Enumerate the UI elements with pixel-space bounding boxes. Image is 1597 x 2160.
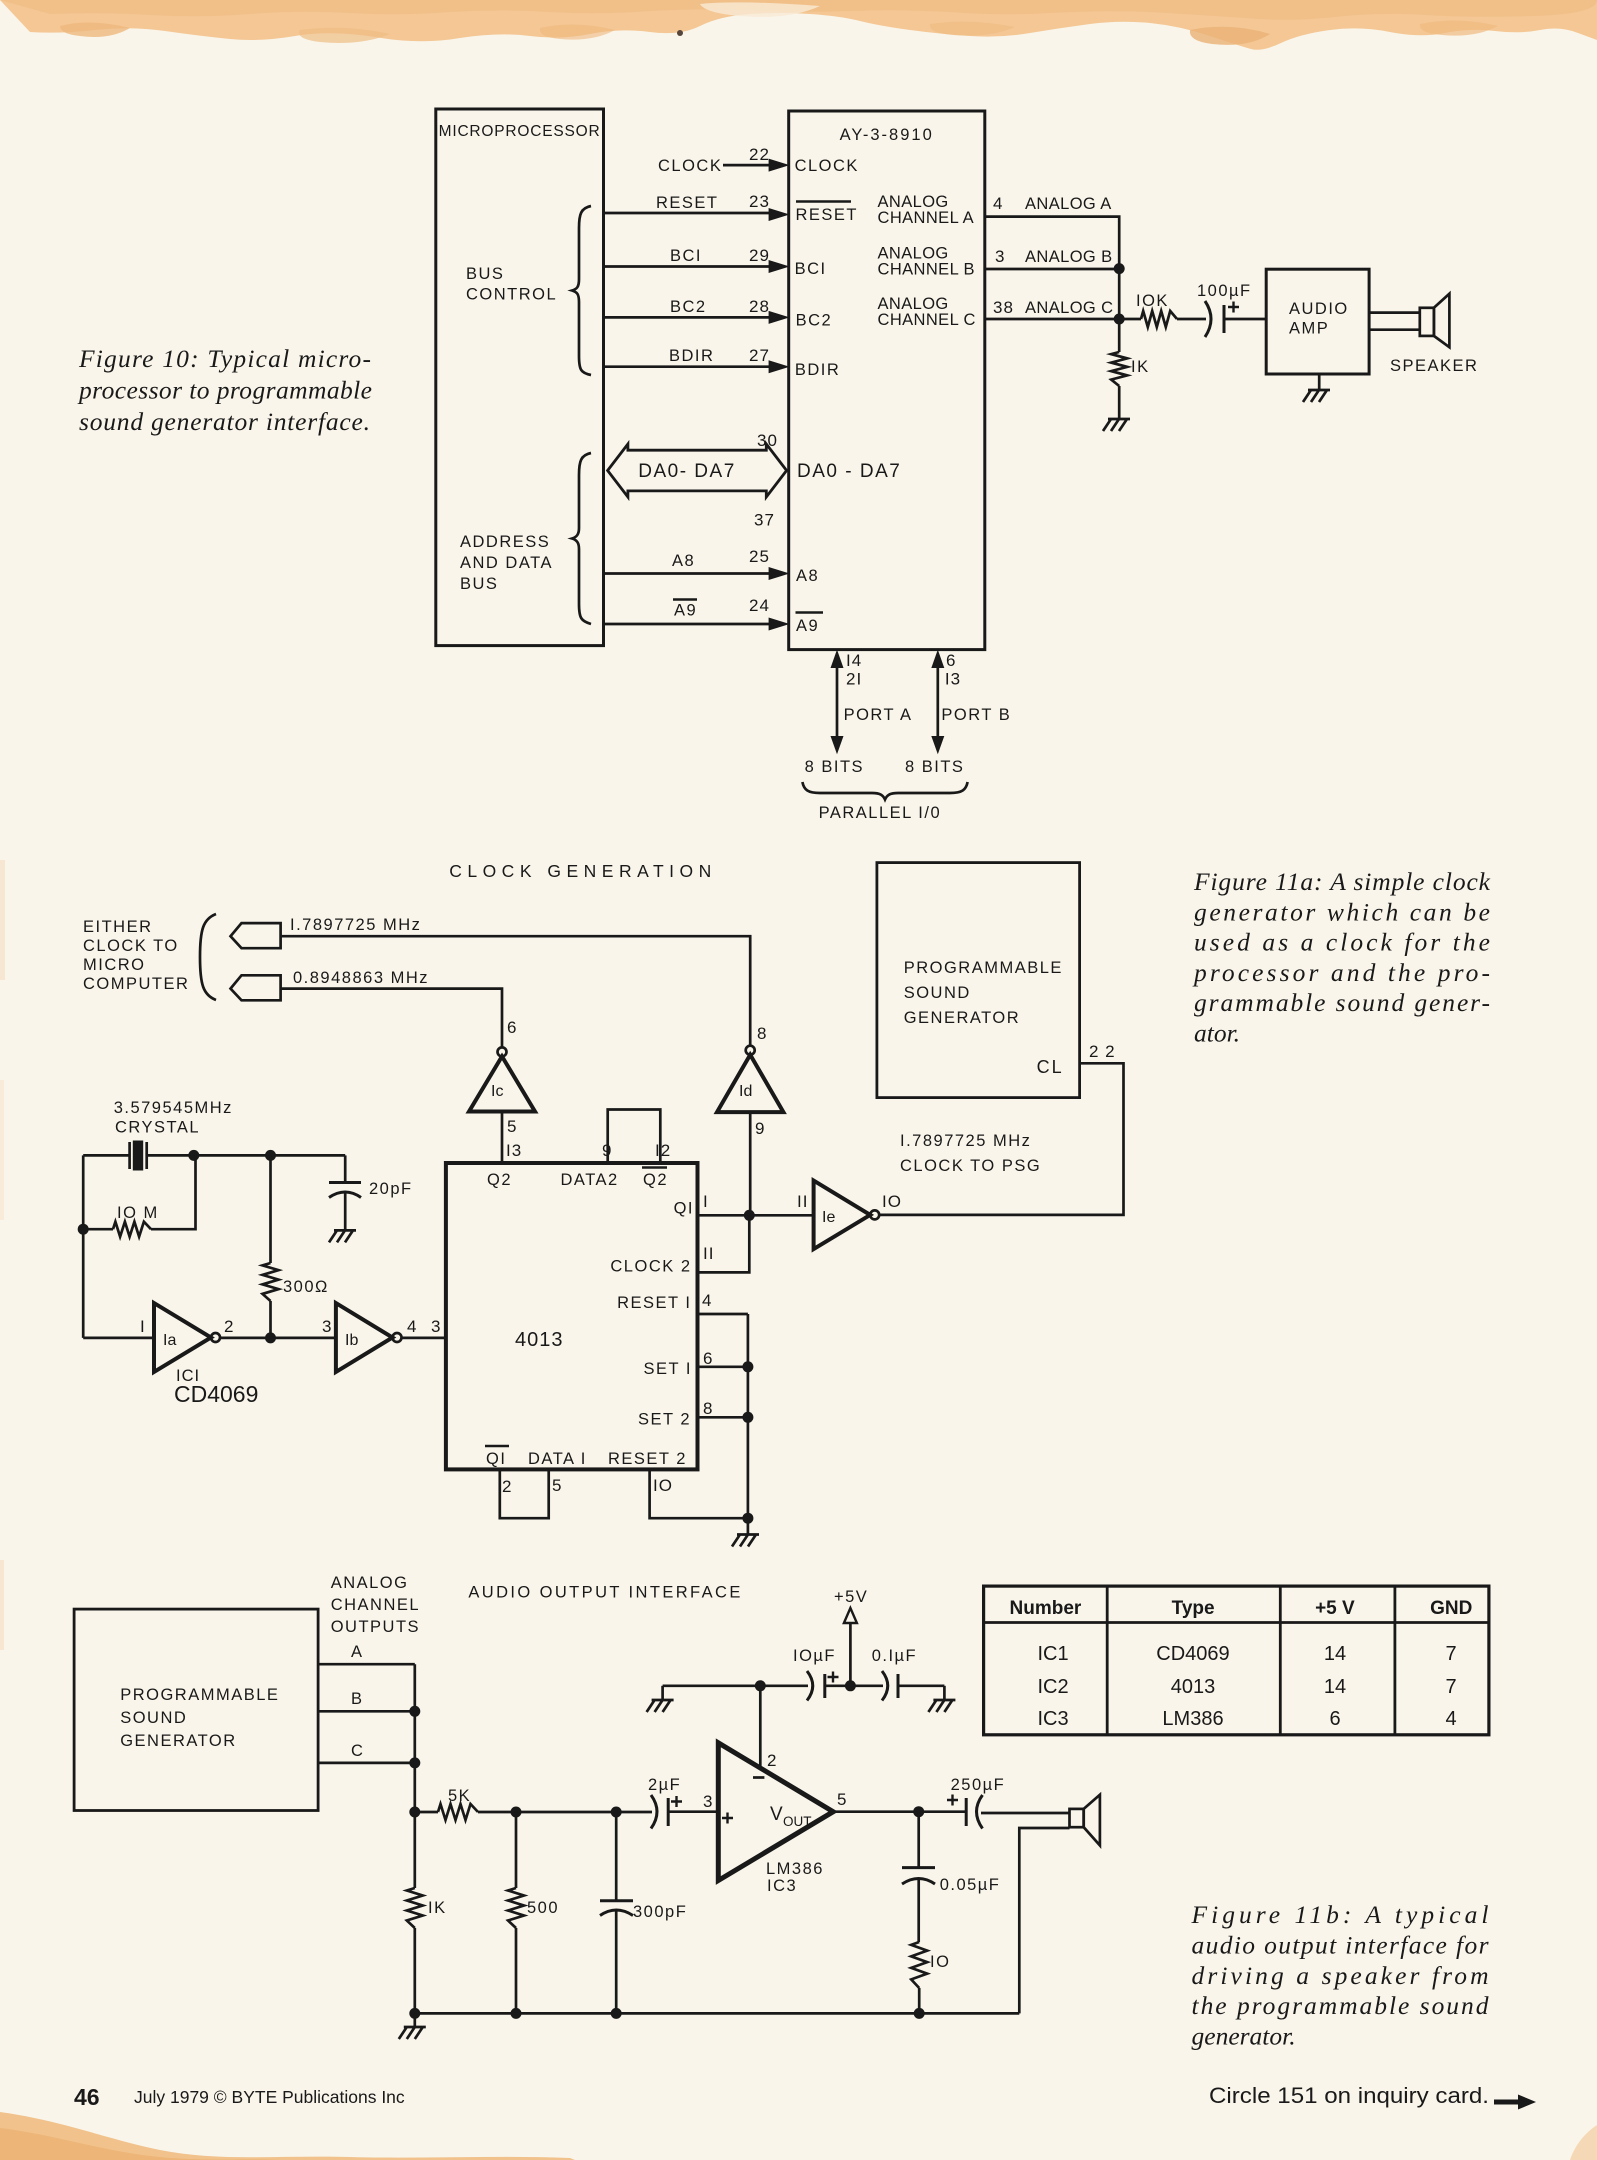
svg-text:OUT: OUT <box>783 1814 812 1829</box>
node Vout junction <box>913 1806 924 1817</box>
IC pin table <box>984 1586 1489 1735</box>
4013 pin SET1 6 wire <box>644 1349 748 1378</box>
wire ground rail 11b <box>415 2012 1020 2015</box>
svg-text:A9: A9 <box>796 617 819 635</box>
svg-text:27: 27 <box>749 346 770 365</box>
svg-text:BUS: BUS <box>460 575 498 593</box>
svg-text:DATA2: DATA2 <box>561 1171 619 1189</box>
op-amp LM386 IC3 <box>703 1743 847 1895</box>
capacitor 0.05uF <box>902 1812 1000 1942</box>
svg-text:AY-3-8910: AY-3-8910 <box>840 126 934 144</box>
wire Q1bar to DATA1 <box>500 1469 549 1518</box>
wire channel B <box>318 1690 415 1711</box>
svg-text:CLOCK TO PSG: CLOCK TO PSG <box>900 1157 1041 1175</box>
microprocessor box <box>436 109 604 646</box>
svg-text:IOµF: IOµF <box>793 1647 836 1665</box>
node SET1 junction <box>742 1361 753 1372</box>
svg-text:0.IµF: 0.IµF <box>872 1647 917 1665</box>
AY pin name RESET(bar) <box>796 202 859 225</box>
svg-text:Ie: Ie <box>822 1209 835 1226</box>
+5V supply arrow <box>834 1588 868 1686</box>
svg-text:RESET 2: RESET 2 <box>608 1450 687 1468</box>
wire channel bus down to mix node <box>413 1664 416 1812</box>
capacitor 2uF <box>648 1776 718 1829</box>
node pin2 tap <box>755 1680 766 1691</box>
4013 pin DATA2 9 <box>561 1141 619 1189</box>
capacitor 20pF <box>329 1155 413 1230</box>
svg-text:4013: 4013 <box>1171 1676 1216 1698</box>
svg-text:4: 4 <box>993 194 1003 213</box>
svg-text:PARALLEL I/0: PARALLEL I/0 <box>819 804 942 822</box>
svg-text:6: 6 <box>946 651 956 670</box>
IC2 4013 box <box>446 1163 698 1469</box>
label crystal value <box>114 1099 233 1137</box>
svg-text:IC3: IC3 <box>1037 1708 1068 1730</box>
svg-text:8 BITS: 8 BITS <box>905 758 964 776</box>
svg-text:AND DATA: AND DATA <box>460 554 553 572</box>
wire Vout to 250uF <box>833 1810 966 1813</box>
svg-text:CLOCK GENERATION: CLOCK GENERATION <box>449 861 717 881</box>
svg-text:PORT A: PORT A <box>844 706 913 724</box>
svg-text:II: II <box>797 1192 808 1211</box>
label analog channel B <box>878 245 975 279</box>
svg-text:5: 5 <box>507 1117 517 1136</box>
svg-text:Figure 11a: A simple clock: Figure 11a: A simple clock <box>1193 867 1491 896</box>
label either clock to micro computer <box>83 918 189 993</box>
wire CLOCK to pin 22 <box>658 145 790 175</box>
wire analog C pin 38 <box>985 298 1141 319</box>
svg-text:CHANNEL: CHANNEL <box>331 1596 420 1614</box>
svg-text:14: 14 <box>1324 1676 1346 1698</box>
svg-text:ADDRESS: ADDRESS <box>460 533 550 551</box>
svg-text:C: C <box>351 1742 364 1760</box>
svg-text:ANALOG B: ANALOG B <box>1025 248 1113 266</box>
svg-text:22: 22 <box>749 145 770 164</box>
4013 pin RESET1 4 wire <box>617 1291 748 1314</box>
figure 10 caption <box>77 344 372 436</box>
wire channel A <box>318 1643 415 1664</box>
svg-text:the programmable sound: the programmable sound <box>1192 1991 1489 2020</box>
svg-text:IC1: IC1 <box>1037 1643 1068 1665</box>
svg-text:46: 46 <box>74 2084 100 2110</box>
svg-text:30: 30 <box>757 431 778 450</box>
svg-text:IK: IK <box>1131 358 1150 376</box>
figure 11a caption <box>1192 867 1491 1048</box>
wire 1c to 4013 pin 13 <box>502 1112 522 1164</box>
node analog C junction <box>1114 314 1125 325</box>
svg-text:IK: IK <box>428 1899 447 1917</box>
svg-text:25: 25 <box>749 547 770 566</box>
svg-text:CHANNEL A: CHANNEL A <box>878 209 975 227</box>
audio amp box U-amp <box>1266 269 1369 374</box>
svg-text:I: I <box>703 1192 709 1211</box>
resistor 5K <box>415 1787 478 1820</box>
capacitor 250uF <box>947 1776 1070 1829</box>
svg-text:AUDIO OUTPUT INTERFACE: AUDIO OUTPUT INTERFACE <box>468 1584 742 1602</box>
wire analog A pin 4 <box>985 194 1119 268</box>
svg-text:A8: A8 <box>796 567 819 585</box>
svg-text:audio output interface for: audio output interface for <box>1192 1930 1489 1959</box>
svg-text:CLOCK: CLOCK <box>658 157 722 175</box>
svg-text:IO: IO <box>930 1953 950 1971</box>
svg-text:BDIR: BDIR <box>669 347 714 365</box>
svg-text:I.7897725 MHz: I.7897725 MHz <box>290 916 421 934</box>
4013 pin Q1 1 wire to 1e <box>674 1192 814 1218</box>
bus arrow DA0-DA7 <box>608 431 787 530</box>
wire BC1 to pin 29 <box>604 246 790 273</box>
svg-text:Ib: Ib <box>345 1332 358 1349</box>
svg-text:SOUND: SOUND <box>904 984 971 1002</box>
scan artifact: bottom-left orange blob <box>0 2112 575 2160</box>
svg-text:sound generator interface.: sound generator interface. <box>79 407 370 436</box>
svg-text:+5 V: +5 V <box>1315 1598 1355 1619</box>
svg-text:BCI: BCI <box>670 247 702 265</box>
ground below 1K <box>1103 386 1130 431</box>
svg-text:grammable sound gener-: grammable sound gener- <box>1194 988 1490 1017</box>
svg-text:CD4069: CD4069 <box>1156 1643 1229 1665</box>
4013 pin DATA1 5 <box>528 1450 587 1495</box>
svg-text:3: 3 <box>322 1317 332 1336</box>
wire 1a out to 1b <box>220 1337 336 1340</box>
resistor 1K <box>1111 319 1149 386</box>
wire BDIR to pin 27 <box>604 346 790 373</box>
svg-text:5: 5 <box>837 1790 847 1809</box>
svg-text:Id: Id <box>739 1083 752 1100</box>
svg-text:CLOCK 2: CLOCK 2 <box>610 1258 691 1276</box>
svg-text:B: B <box>351 1690 364 1708</box>
svg-text:250µF: 250µF <box>951 1776 1006 1794</box>
AY pin name A9(bar) <box>796 613 824 636</box>
capacitor 100uF <box>1197 282 1266 337</box>
svg-text:PORT B: PORT B <box>941 706 1011 724</box>
wire BC2 to pin 28 <box>604 297 790 324</box>
svg-text:GENERATOR: GENERATOR <box>120 1732 237 1750</box>
svg-text:Ic: Ic <box>491 1083 503 1100</box>
underbrace parallel IO <box>802 782 967 800</box>
svg-text:8 BITS: 8 BITS <box>805 758 864 776</box>
node ground junction <box>742 1513 753 1524</box>
4013 pin Q2bar 12 <box>642 1141 671 1189</box>
svg-text:DA0 - DA7: DA0 - DA7 <box>797 461 901 482</box>
port A arrow pins 14 21 <box>831 650 913 755</box>
brace bus control <box>572 206 591 375</box>
scan artifact: left edge faint marks <box>0 860 5 980</box>
clock output flag 0.8948863 MHz <box>231 969 430 1000</box>
svg-text:ANALOG A: ANALOG A <box>1025 195 1112 213</box>
node rail 300pF <box>611 2008 622 2019</box>
svg-text:2: 2 <box>502 1477 512 1496</box>
wire speaker return <box>1019 1828 1069 2013</box>
svg-text:CHANNEL B: CHANNEL B <box>878 261 975 279</box>
svg-text:300pF: 300pF <box>633 1903 687 1921</box>
svg-text:6: 6 <box>1329 1708 1340 1730</box>
capacitor 300pF <box>600 1812 687 2013</box>
programmable sound generator box 11b <box>74 1609 318 1810</box>
svg-text:BDIR: BDIR <box>795 361 840 379</box>
bus control group label <box>466 265 557 304</box>
svg-text:6: 6 <box>703 1349 713 1368</box>
svg-text:MICRO: MICRO <box>83 956 146 974</box>
svg-text:IC3: IC3 <box>767 1877 797 1895</box>
svg-text:2 2: 2 2 <box>1089 1042 1116 1061</box>
svg-text:I: I <box>140 1317 146 1336</box>
wire 10uF to 0.1uF <box>825 1684 883 1687</box>
speaker symbol 11b <box>1070 1795 1100 1846</box>
node 300ohm bottom <box>265 1332 276 1343</box>
svg-text:100µF: 100µF <box>1197 282 1252 300</box>
svg-text:CL: CL <box>1037 1057 1064 1077</box>
clock output flag 1.7897725 MHz <box>231 916 422 948</box>
4013 pin Q1bar 2 <box>485 1446 512 1496</box>
svg-text:7: 7 <box>1445 1676 1456 1698</box>
svg-text:38: 38 <box>993 298 1014 317</box>
wire crystal net to 1a input <box>83 1337 154 1340</box>
node +5V junction <box>845 1680 856 1691</box>
node rail 500 <box>511 2008 522 2019</box>
svg-text:AUDIO: AUDIO <box>1289 300 1349 318</box>
crystal X1 <box>130 1141 147 1171</box>
svg-text:EITHER: EITHER <box>83 918 153 936</box>
svg-text:2: 2 <box>767 1751 777 1770</box>
svg-text:37: 37 <box>754 511 775 530</box>
node rail left <box>409 2008 420 2019</box>
svg-text:Q2: Q2 <box>487 1171 512 1189</box>
svg-text:4013: 4013 <box>515 1329 564 1351</box>
svg-text:29: 29 <box>749 246 770 265</box>
svg-text:Type: Type <box>1172 1598 1215 1619</box>
svg-text:3.579545MHz: 3.579545MHz <box>114 1099 233 1117</box>
svg-text:PROGRAMMABLE: PROGRAMMABLE <box>120 1686 279 1704</box>
footer circle 151 note <box>1209 2083 1536 2110</box>
svg-text:used as a clock for the: used as a clock for the <box>1194 928 1490 957</box>
svg-text:LM386: LM386 <box>1162 1708 1223 1730</box>
svg-text:IC2: IC2 <box>1037 1676 1068 1698</box>
programmable sound generator box 11a <box>877 863 1116 1098</box>
node channel B junction <box>409 1706 420 1717</box>
wire analog B pin 3 <box>985 247 1119 269</box>
ground below 4013 rail <box>732 1518 759 1546</box>
svg-text:23: 23 <box>749 192 770 211</box>
4013 pin RESET2 10 wire <box>608 1450 748 1518</box>
svg-text:Ia: Ia <box>163 1332 176 1349</box>
inverter 1e pins 11 10 <box>797 1181 902 1250</box>
inverter 1a pins 1 2 <box>140 1303 234 1372</box>
wire A9(bar) to pin 24 <box>604 596 790 631</box>
svg-text:generator.: generator. <box>1192 2022 1296 2051</box>
svg-text:500: 500 <box>527 1899 559 1917</box>
svg-text:5: 5 <box>552 1476 562 1495</box>
resistor 10 <box>911 1942 950 2013</box>
svg-text:2: 2 <box>224 1317 234 1336</box>
svg-text:A: A <box>351 1643 364 1661</box>
node analog B junction <box>1114 263 1125 274</box>
svg-text:3: 3 <box>995 247 1005 266</box>
svg-text:CLOCK: CLOCK <box>795 157 859 175</box>
4013 pin CLOCK2 11 wire <box>610 1215 749 1275</box>
wire +5V rail left <box>663 1684 808 1687</box>
svg-text:AMP: AMP <box>1289 320 1329 338</box>
wire left to crystal <box>83 1154 129 1157</box>
figure 11b caption <box>1191 1900 1489 2051</box>
svg-text:CD4069: CD4069 <box>174 1381 258 1407</box>
svg-text:I3: I3 <box>506 1141 522 1160</box>
svg-text:Number: Number <box>1010 1598 1082 1619</box>
svg-text:ator.: ator. <box>1194 1019 1240 1048</box>
ground below 20pF <box>329 1230 356 1242</box>
svg-text:5K: 5K <box>448 1787 471 1805</box>
node Q1 junction <box>744 1210 755 1221</box>
svg-text:MICROPROCESSOR: MICROPROCESSOR <box>439 123 601 140</box>
svg-text:3: 3 <box>431 1317 441 1336</box>
svg-text:14: 14 <box>1324 1643 1346 1665</box>
inverter 1b pins 3 4 <box>322 1303 417 1372</box>
svg-text:I3: I3 <box>945 670 961 689</box>
svg-text:DATA I: DATA I <box>528 1450 587 1468</box>
svg-text:9: 9 <box>755 1119 765 1138</box>
scan artifact: bottom-right faint corner <box>1570 2125 1597 2160</box>
wire amp to speaker bottom <box>1369 328 1420 331</box>
node mix <box>409 1807 420 1818</box>
inverter 1c pins 5 6 <box>469 1018 535 1136</box>
svg-text:QI: QI <box>486 1450 506 1468</box>
svg-text:BUS: BUS <box>466 265 504 283</box>
svg-text:I.7897725 MHz: I.7897725 MHz <box>900 1132 1031 1150</box>
svg-text:PROGRAMMABLE: PROGRAMMABLE <box>904 959 1063 977</box>
inverter 1d pins 8 9 <box>717 1024 783 1138</box>
resistor 10K <box>1136 292 1206 327</box>
svg-text:SPEAKER: SPEAKER <box>1390 357 1478 375</box>
svg-text:CRYSTAL: CRYSTAL <box>115 1119 200 1137</box>
svg-text:CONTROL: CONTROL <box>466 286 557 304</box>
svg-text:RESET I: RESET I <box>617 1294 691 1312</box>
wire pin2 from +5V node <box>759 1686 762 1768</box>
svg-text:BC2: BC2 <box>796 312 833 330</box>
address and data bus group label <box>460 533 553 593</box>
svg-text:6: 6 <box>507 1018 517 1037</box>
svg-text:SOUND: SOUND <box>120 1709 187 1727</box>
resistor 10M <box>83 1155 195 1236</box>
svg-text:DA0- DA7: DA0- DA7 <box>638 461 736 482</box>
label analog channel outputs <box>331 1574 420 1636</box>
node channel C junction <box>409 1757 420 1768</box>
svg-text:A9: A9 <box>674 602 697 620</box>
svg-text:CLOCK TO: CLOCK TO <box>83 937 179 955</box>
svg-text:II: II <box>703 1244 714 1263</box>
svg-text:processor to programmable: processor to programmable <box>77 376 372 405</box>
svg-text:2I: 2I <box>846 670 862 689</box>
svg-text:3: 3 <box>703 1792 713 1811</box>
label IC1 CD4069 <box>174 1367 258 1407</box>
speaker symbol <box>1390 294 1478 375</box>
wire 1e out to PSG CL pin 22 <box>879 1063 1123 1215</box>
svg-text:RESET: RESET <box>796 206 859 224</box>
svg-text:+5V: +5V <box>834 1588 868 1606</box>
svg-text:I4: I4 <box>846 651 862 670</box>
svg-text:GENERATOR: GENERATOR <box>904 1009 1021 1027</box>
svg-text:driving a speaker from: driving a speaker from <box>1192 1961 1489 1990</box>
wire 1d input from Q1 node <box>749 1112 752 1215</box>
wire A8 to pin 25 <box>604 547 790 580</box>
svg-text:ANALOG C: ANALOG C <box>1025 299 1113 317</box>
ground below audio amp <box>1303 374 1330 402</box>
4013 pin SET2 8 wire <box>638 1399 748 1429</box>
wire left vertical to 1a input <box>82 1155 85 1338</box>
svg-text:IO: IO <box>882 1192 902 1211</box>
scan artifact: top orange band <box>0 0 1597 50</box>
capacitor 0.1uF <box>872 1647 945 1701</box>
svg-text:4: 4 <box>702 1291 712 1310</box>
svg-text:IO M: IO M <box>117 1204 159 1222</box>
svg-text:LM386: LM386 <box>766 1860 824 1878</box>
svg-text:SET 2: SET 2 <box>638 1411 691 1429</box>
node 10M left <box>78 1224 89 1235</box>
wire B to C junction <box>1118 269 1121 319</box>
jumper wire pin9 to pin12 <box>608 1110 661 1164</box>
svg-text:4: 4 <box>1445 1708 1456 1730</box>
ground below rail 11b <box>399 2013 426 2039</box>
svg-text:V: V <box>770 1804 783 1825</box>
label analog channel A <box>878 193 975 227</box>
svg-text:OUTPUTS: OUTPUTS <box>331 1618 420 1636</box>
svg-text:28: 28 <box>749 297 770 316</box>
svg-text:QI: QI <box>674 1200 694 1218</box>
wire 1b out to 4013 pin 3 <box>402 1317 446 1338</box>
wire RESET to pin 23 <box>604 192 790 221</box>
svg-text:COMPUTER: COMPUTER <box>83 975 189 993</box>
resistor 500 <box>508 1812 559 2013</box>
wire 5K to 2uF <box>478 1811 652 1814</box>
svg-text:ANALOG: ANALOG <box>331 1574 409 1592</box>
svg-text:300Ω: 300Ω <box>283 1278 329 1296</box>
svg-text:7: 7 <box>1445 1643 1456 1665</box>
svg-text:2µF: 2µF <box>648 1776 681 1794</box>
svg-text:BC2: BC2 <box>670 298 707 316</box>
node 300pF top <box>611 1807 622 1818</box>
ground right of rail <box>928 1686 955 1712</box>
wire amp to speaker top <box>1369 311 1420 314</box>
node rail 10 <box>914 2008 925 2019</box>
AY-3-8910 box <box>789 111 985 650</box>
svg-text:24: 24 <box>749 596 770 615</box>
svg-text:8: 8 <box>703 1399 713 1418</box>
svg-text:July 1979 © BYTE Publications: July 1979 © BYTE Publications Inc <box>134 2087 405 2107</box>
svg-text:Figure 10: Typical micro-: Figure 10: Typical micro- <box>78 344 371 373</box>
svg-text:Circle 151 on inquiry card.: Circle 151 on inquiry card. <box>1209 2083 1489 2108</box>
svg-text:CHANNEL C: CHANNEL C <box>878 311 976 329</box>
node 500 top <box>511 1807 522 1818</box>
svg-text:GND: GND <box>1430 1598 1472 1619</box>
svg-text:Q2: Q2 <box>643 1171 668 1189</box>
label clock to psg <box>900 1132 1041 1175</box>
svg-text:A8: A8 <box>672 552 695 570</box>
svg-text:SET I: SET I <box>644 1360 692 1378</box>
4013 pin Q2 13 <box>487 1171 512 1189</box>
label analog channel C <box>878 295 976 329</box>
resistor 300 ohm <box>263 1155 329 1338</box>
svg-text:0.05µF: 0.05µF <box>940 1876 1001 1894</box>
wire flag2 to inverter 1c <box>281 989 502 1048</box>
capacitor 10uF <box>793 1647 839 1701</box>
ground left of rail <box>647 1686 674 1712</box>
wire flag1 to inverter 1d <box>281 936 751 1045</box>
port B arrow pins 6 13 <box>931 650 1011 755</box>
wire right rail to ground <box>747 1314 750 1518</box>
svg-text:IO: IO <box>653 1476 673 1495</box>
svg-text:BCI: BCI <box>795 260 827 278</box>
brace either clock <box>200 914 216 1000</box>
node crystal right <box>188 1150 199 1161</box>
svg-text:generator which can be: generator which can be <box>1194 897 1490 926</box>
